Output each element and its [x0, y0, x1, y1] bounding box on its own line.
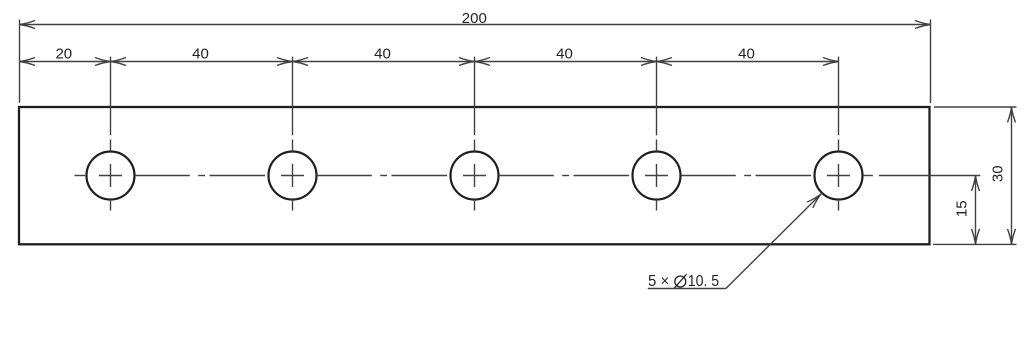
dimension 200 line [20, 21, 931, 29]
hole 2 centre mark cross [281, 164, 304, 187]
hole 1 vertical centreline / extension line [110, 57, 112, 211]
svg-text:10. 5: 10. 5 [688, 273, 720, 290]
hole 4 (diameter 10.5) [633, 152, 681, 200]
hole 5 (diameter 10.5) [815, 152, 863, 200]
centreline extension to 15 dim [879, 175, 980, 177]
hole 1 centre mark cross [99, 164, 122, 187]
svg-text:40: 40 [738, 46, 755, 63]
hole 2 vertical centreline / extension line [292, 57, 294, 211]
hole 4 centre mark cross [645, 164, 668, 187]
hole 3 vertical centreline / extension line [474, 57, 476, 211]
svg-text:5 ×: 5 × [648, 273, 669, 290]
extension line left edge [19, 20, 21, 103]
leader label 5 x dia 10.5 [648, 273, 719, 290]
hole 3 (diameter 10.5) [451, 152, 499, 200]
bottom right extension line [933, 243, 1017, 245]
dimension 30 line [1008, 107, 1016, 244]
svg-text:30: 30 [989, 165, 1006, 182]
part outline: flat bar 200x30 [19, 107, 930, 244]
leader line to hole 5 [648, 194, 821, 289]
dimension row 20/40 line [20, 58, 839, 66]
horizontal centreline chain through holes [75, 175, 873, 177]
svg-text:40: 40 [192, 46, 209, 63]
svg-text:200: 200 [462, 10, 487, 27]
svg-text:40: 40 [374, 46, 391, 63]
extension line right edge [930, 20, 932, 104]
hole 4 vertical centreline / extension line [656, 57, 658, 211]
hole 3 centre mark cross [463, 164, 486, 187]
top right extension line [934, 106, 1017, 108]
svg-text:40: 40 [556, 46, 573, 63]
hole 5 centre mark cross [827, 164, 850, 187]
hole 1 (diameter 10.5) [87, 152, 135, 200]
svg-text:20: 20 [55, 46, 72, 63]
hole 5 vertical centreline / extension line [838, 57, 840, 211]
dimension 15 line [972, 176, 980, 245]
svg-text:15: 15 [954, 200, 971, 217]
hole 2 (diameter 10.5) [269, 152, 317, 200]
